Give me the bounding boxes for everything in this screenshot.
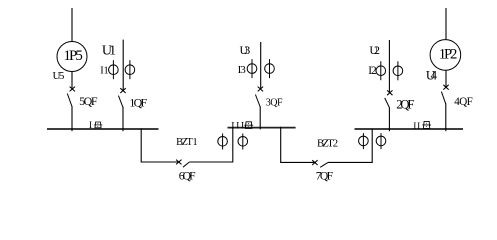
svg-text:U3: U3: [240, 43, 251, 57]
switch blade 2QF: [385, 98, 390, 108]
svg-text:I1: I1: [100, 65, 109, 76]
wire feeder U3: [260, 42, 262, 89]
CT left of U2 feeder: [376, 61, 386, 80]
svg-text:2QF: 2QF: [396, 97, 414, 111]
svg-text:3QF: 3QF: [266, 97, 283, 108]
svg-text:BZT 1: BZT 1: [176, 137, 198, 148]
CT left of BZT2 riser: [359, 133, 369, 149]
wire tie BZT2 to bus II riser: [328, 129, 372, 163]
switch blade 7QF: [320, 162, 328, 167]
wire 5QF to bus I: [71, 106, 73, 131]
label bus III (III母): [231, 120, 253, 131]
CT right of U1 feeder: [125, 60, 135, 79]
svg-text:U2: U2: [369, 43, 380, 57]
svg-text:II: II: [413, 122, 420, 132]
CT right of U3 feeder: [265, 59, 275, 78]
switch blade 5QF: [67, 94, 72, 107]
svg-text:1P2: 1P2: [439, 47, 458, 63]
svg-text:U1: U1: [102, 44, 116, 59]
svg-text:I: I: [89, 120, 92, 131]
svg-text:1QF: 1QF: [129, 96, 147, 110]
wire 2QF to bus II: [388, 107, 390, 131]
breaker contact cross 7QF: [312, 160, 317, 165]
svg-text:6QF: 6QF: [179, 169, 196, 182]
CT right of U2 feeder: [393, 61, 403, 80]
source circle 1P2: [430, 40, 461, 71]
svg-text:U5: U5: [53, 70, 65, 82]
switch blade 6QF: [183, 162, 189, 167]
CT left of U1 feeder: [109, 60, 119, 79]
breaker contact cross 5QF: [70, 87, 75, 92]
switch blade 4QF: [441, 92, 445, 104]
wire bus I drop to tie BZT1: [141, 129, 180, 163]
source circle 1P5: [57, 42, 87, 72]
wire 4QF to bus II: [445, 104, 447, 132]
wire feeder U1: [122, 40, 124, 91]
wire 3QF to bus III: [259, 106, 261, 129]
breaker contact cross 3QF: [258, 87, 263, 92]
svg-text:5QF: 5QF: [79, 94, 98, 108]
wire 1QF to bus I: [122, 107, 124, 132]
CT right of BZT1 riser: [238, 134, 248, 150]
wire source U4 top lead: [445, 8, 447, 40]
svg-text:I3: I3: [238, 64, 247, 76]
CT right of BZT2 riser: [376, 133, 386, 149]
wire bus III drop to tie BZT2: [281, 127, 316, 163]
breaker contact cross 2QF: [387, 90, 392, 95]
svg-text:BZT 2: BZT 2: [317, 137, 338, 149]
wire U5 below circle: [71, 72, 73, 89]
svg-text:4QF: 4QF: [454, 96, 473, 108]
CT left of U3 feeder: [247, 59, 257, 78]
label bus II (II 母): [413, 121, 431, 131]
svg-text:7QF: 7QF: [316, 169, 334, 182]
breaker contact cross 1QF: [120, 88, 125, 93]
breaker contact cross 6QF: [176, 160, 181, 165]
svg-text:U4: U4: [426, 69, 438, 83]
wire U4 below circle: [445, 70, 447, 87]
busbar section III: [228, 127, 296, 129]
wire feeder U2: [388, 40, 390, 92]
busbar section I: [47, 128, 159, 130]
busbar section II: [355, 128, 464, 130]
switch blade 1QF: [118, 96, 122, 107]
wire tie BZT1 to bus III riser: [189, 127, 232, 162]
CT left of BZT1 riser: [218, 134, 228, 150]
breaker contact cross 4QF: [443, 85, 448, 90]
label bus I (I母): [89, 120, 102, 131]
svg-text:1P5: 1P5: [64, 48, 83, 64]
wire source U5 top lead: [71, 8, 73, 42]
switch blade 3QF: [255, 95, 260, 107]
